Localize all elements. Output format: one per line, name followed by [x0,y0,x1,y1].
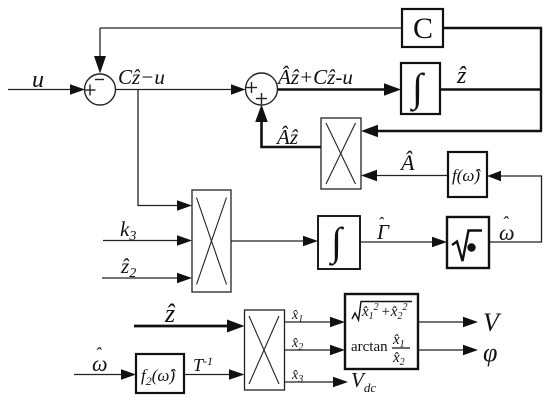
node arrowhead k3 into M2 [177,235,192,246]
svg-text:Â: Â [399,150,415,175]
block multiplier M1 [321,118,361,189]
wire V output [418,321,465,323]
wire C feedback down into S1 [99,28,101,62]
label Gamma hat [376,215,390,244]
svg-text:f(ω̂): f(ω̂) [452,166,481,185]
wire phi output [418,349,465,351]
node arrowhead x2 into formula box [330,345,345,356]
svg-text:φ: φ [483,338,497,367]
block sqrt dot [447,217,489,268]
wire zhat output of U2 (thick) [440,88,542,91]
block integrator U2 [401,63,440,114]
wire omega feedback into f(omega) [489,176,542,242]
block integrator U6 [318,216,360,269]
svg-text:ẑ: ẑ [456,63,467,89]
svg-text:ˆ: ˆ [378,215,384,232]
svg-text:ˆ: ˆ [95,344,102,364]
summing junction S1 [85,74,116,105]
wire right vertical bus (thick) [540,27,542,131]
wire bottom zhat input (thick) [134,325,229,328]
svg-text:C: C [413,12,433,45]
label Cz-u [118,65,165,89]
wire S1 to S2 [116,89,235,91]
node arrowhead into S2 bottom [255,105,268,123]
node arrowhead into S2 [231,84,246,95]
node arrowhead into M1 top-right [361,125,378,138]
node arrowhead phi [463,345,478,356]
node arrowhead into M1 bottom-right [361,170,377,181]
block multiplier M2 [192,190,231,292]
node u input arrowhead [70,84,85,95]
wire zhat feedback into M1 top (thick) [374,130,542,132]
svg-text:Âẑ: Âẑ [275,125,299,149]
node arrowhead T-1 into M3 [229,369,245,380]
node arrowhead into U2 [384,83,401,96]
wire C box input from right (thick) [443,27,542,29]
wire M1 output Az to S2 bottom (thick) [262,118,322,147]
node arrowhead into f(omega) right [487,171,501,181]
wire z2 input [102,277,180,279]
wire f2 output T-1 to M3 [184,374,232,376]
node arrowhead into sqrt block [432,237,447,248]
block C box [402,9,443,47]
block formula box U9 [345,294,418,369]
node arrowhead V [463,317,478,328]
wire tap down from Cz-u line to multiplier M2 [138,90,180,206]
svg-text:ˆ: ˆ [502,213,509,233]
wire C box output to left [100,27,402,29]
wire M2 output to integrator U6 [231,240,305,242]
node arrowhead x1 into formula box [330,317,345,328]
svg-text:Âẑ+Cẑ-u: Âẑ+Cẑ-u [276,65,353,89]
summing junction S2 [246,73,278,105]
wire k3 input [103,240,180,242]
label omega hat right [499,213,515,245]
svg-text:arctan: arctan [351,339,388,355]
wire omega input bottom [74,374,124,376]
wire f(omega) output to M1 (Ahat) [375,175,448,177]
wire x1 output of M3 [285,321,333,323]
block f2(omega) [136,354,184,393]
wire S2 to integrator U2 (thick) [278,88,389,91]
node arrowhead into U6 [303,236,318,247]
node arrowhead zhat into M3 [227,320,245,333]
wire U6 output Gamma to sqrt block [360,241,434,243]
svg-text:u: u [32,67,44,93]
node arrowhead into S1 top [94,56,106,74]
svg-text:Cẑ−u: Cẑ−u [118,65,165,89]
block multiplier M3 [245,310,285,390]
node arrowhead x3 to Vdc [333,377,348,388]
node arrowhead into M2 top input [177,200,192,211]
wire u input [8,89,73,91]
block f(omega) [448,152,487,197]
node arrowhead omega into f2 [121,369,136,380]
wire x3 output of M3 [285,381,336,383]
node arrowhead z2 into M2 [177,273,192,284]
svg-text:ẑ: ẑ [164,299,176,328]
wire x2 output of M3 [285,349,333,351]
label omega hat bottom [92,344,108,376]
